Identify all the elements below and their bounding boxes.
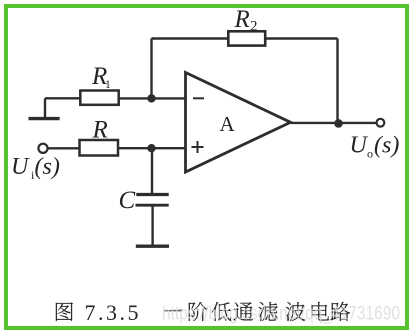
op-amp inverting (minus) marking [193,97,204,99]
caption char 电 (dian) [312,302,329,321]
svg-text:U: U [11,154,30,180]
wire: ground 1 vertical [44,98,46,117]
junction node at non-inverting input [147,144,155,152]
wire: node to capacitor top plate [151,148,153,193]
svg-text:o: o [367,147,373,161]
wire: op-amp output to terminal [291,122,376,124]
resistor R1 body [80,91,118,105]
svg-text:2: 2 [250,19,258,35]
wire: feedback top horizontal right segment [265,37,337,39]
wire: R1 right to op-amp inverting input [119,97,186,99]
svg-text:A: A [220,112,236,136]
svg-text:U: U [350,133,369,159]
caption char 图 (tu) [56,302,73,321]
svg-text:(s): (s) [374,133,399,159]
svg-text:7.3.5: 7.3.5 [85,300,142,325]
wire: ground stub to R1 left [45,97,80,99]
svg-text:C: C [119,187,136,214]
junction node at inverting input [147,94,155,102]
svg-text:https://blog.csdn.net/qq_41731: https://blog.csdn.net/qq_41731690 [162,304,400,325]
svg-text:1: 1 [105,79,111,91]
wire: feedback right vertical drop to output node [336,39,338,124]
caption char 低 (di) [212,302,231,321]
op-amp non-inverting (plus) marking [192,141,204,153]
caption char 通 (tong) [233,302,253,321]
capacitor C bottom plate [136,204,169,207]
resistor R2 body [228,31,265,45]
ground 2 bar (below capacitor) [136,244,169,247]
svg-text:(s): (s) [35,154,60,180]
caption char 阶 (jie) [189,302,207,321]
wire: input terminal to R left [48,147,79,149]
capacitor C top plate [136,193,168,196]
op-amp U1 triangle [186,73,291,173]
wire: R right to op-amp non-inverting input [118,147,186,149]
caption char 路 (lu) [330,302,350,321]
wire: feedback left vertical drop to inverting node [150,39,152,99]
junction node at output [334,119,343,128]
caption char 一 (yi) [164,309,183,311]
input terminal circle [38,144,47,153]
svg-text:R: R [234,6,250,33]
caption char 滤 (lv) [258,302,277,321]
resistor R body [80,140,119,156]
ground 1 bar (left ground symbol) [29,117,60,120]
svg-text:R: R [92,117,108,144]
wire: capacitor bottom plate to ground 2 [151,206,153,245]
wire: feedback top horizontal left segment [152,37,229,39]
output terminal circle [377,119,385,127]
caption char 波 (bo) [286,302,306,321]
